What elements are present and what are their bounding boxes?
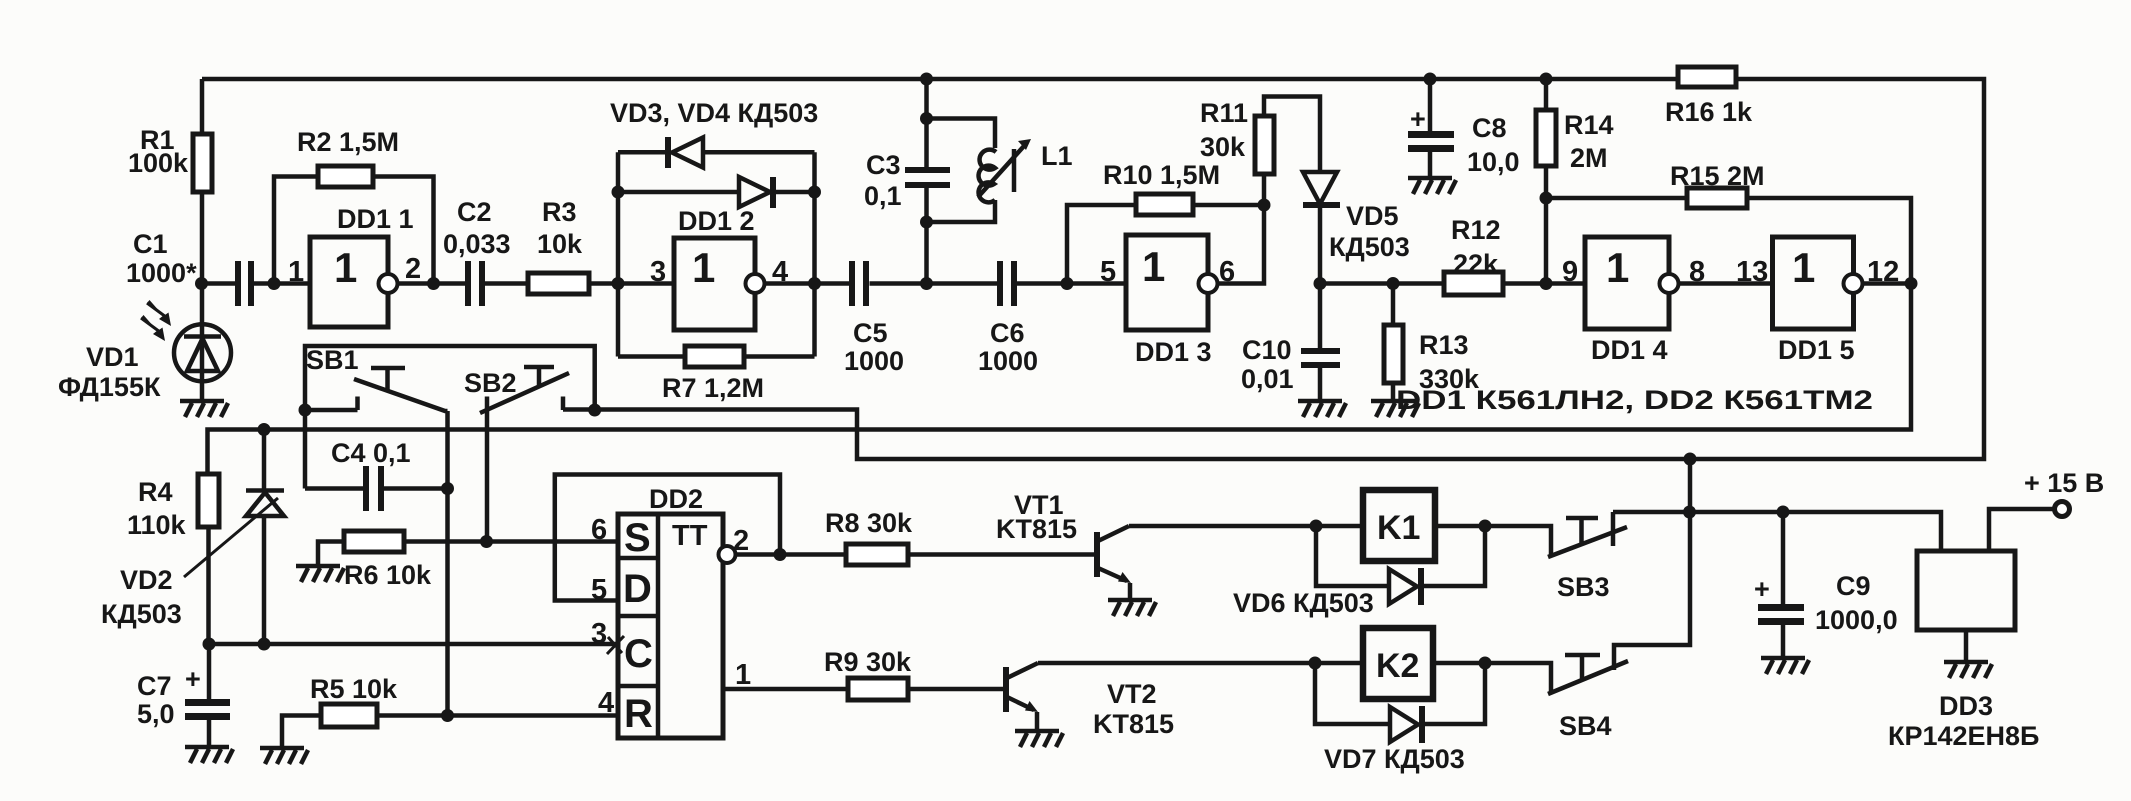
wire SB2 right post to frame	[563, 407, 595, 412]
logic gate DD1.5	[1773, 237, 1863, 329]
svg-text:DD1 2: DD1 2	[678, 206, 755, 236]
wire R1 bottom to C1 node down to VD1 and ground	[200, 192, 205, 401]
wire R13 lower lead to ground	[1391, 383, 1396, 401]
svg-text:1000,0: 1000,0	[1815, 605, 1898, 635]
svg-text:5: 5	[1100, 256, 1116, 288]
ground R13	[1371, 401, 1419, 417]
svg-text:2M: 2M	[1570, 143, 1608, 173]
wire VD2 top lead	[262, 430, 267, 490]
wire R14 bottom through R15 node to pin9 wire	[1544, 165, 1549, 284]
wire DD3 ground lead	[1964, 630, 1969, 662]
wire SB2 left post vertical to R6 row	[485, 410, 490, 542]
capacitor C10	[1301, 348, 1340, 368]
node R13	[1387, 277, 1400, 290]
svg-text:6: 6	[1219, 256, 1235, 288]
svg-text:ФД155К: ФД155К	[58, 372, 161, 402]
svg-text:L1: L1	[1041, 141, 1073, 171]
svg-text:K2: K2	[1376, 647, 1419, 685]
logic gate DD1.1	[310, 237, 398, 327]
wire C5 to C6	[870, 281, 999, 286]
photodiode VD1	[141, 300, 231, 381]
node SB2 frame right	[588, 404, 601, 417]
wire R4 bottom lead	[206, 527, 211, 644]
wire supply branch down to SB3 SB4 feed	[1614, 459, 1690, 670]
wire DD1.4 out to DD1.5 in	[1679, 281, 1773, 286]
resistor R2	[318, 166, 373, 187]
ground C9	[1761, 658, 1809, 674]
wire VD7 bypass loop	[1315, 663, 1485, 724]
resistor R13	[1384, 325, 1403, 383]
ground VT1	[1108, 600, 1156, 616]
wire C3 upper lead from bus	[924, 79, 929, 167]
wire R11 top to VD5 top	[1264, 97, 1320, 173]
capacitor C5	[849, 261, 869, 306]
svg-text:+: +	[185, 664, 201, 694]
wire L1 parallel branch	[927, 119, 996, 223]
wire VD3 row	[618, 150, 815, 155]
logic gate DD1.4	[1585, 237, 1679, 329]
svg-text:DD3: DD3	[1939, 691, 1993, 721]
svg-text:R11: R11	[1200, 98, 1248, 128]
svg-text:+: +	[1754, 574, 1770, 604]
wire K1 right to SB3	[1435, 526, 1551, 557]
svg-text:SB2: SB2	[464, 368, 517, 398]
svg-text:КД503: КД503	[1329, 232, 1410, 262]
svg-text:VD6 КД503: VD6 КД503	[1233, 588, 1374, 618]
svg-text:KT815: KT815	[1093, 709, 1174, 739]
push button SB1	[354, 368, 448, 411]
svg-text:DD1 5: DD1 5	[1778, 335, 1855, 365]
capacitor C4	[363, 466, 384, 511]
voltage regulator DD3	[1917, 551, 2015, 630]
transistor VT1	[1094, 526, 1131, 600]
capacitor C3	[905, 167, 950, 188]
svg-text:1000*: 1000*	[126, 258, 197, 288]
svg-text:1000: 1000	[978, 346, 1038, 376]
node R10 R11 output	[1258, 199, 1271, 212]
node C3 signal row	[920, 277, 933, 290]
svg-text:10,0: 10,0	[1467, 147, 1520, 177]
wire DD1.2 output to C5	[765, 281, 851, 286]
wire SB frame rectangle	[305, 346, 595, 489]
node VD5 C10	[1314, 277, 1327, 290]
svg-text:0,033: 0,033	[443, 229, 511, 259]
node K2 right	[1479, 657, 1492, 670]
svg-text:C7: C7	[137, 671, 172, 701]
svg-text:R5 10k: R5 10k	[310, 674, 398, 704]
svg-text:1: 1	[1792, 244, 1815, 291]
svg-text:8: 8	[1689, 256, 1705, 288]
wire DD1.5 out to pin12 node	[1863, 281, 1912, 286]
wire R13 upper lead	[1391, 284, 1396, 327]
capacitor C2	[465, 261, 485, 306]
wire R15 row and right riser to pin12 node and long feedback line	[208, 198, 1912, 474]
node C4 right	[441, 482, 454, 495]
svg-text:R14: R14	[1564, 110, 1614, 140]
wire VD5 node through R12 to DD1.4 pin9	[1320, 281, 1585, 286]
resistor R4	[198, 474, 219, 527]
svg-text:2: 2	[733, 525, 749, 557]
wire R10 feedback loop	[1067, 205, 1264, 284]
diode VD2 with leader line	[184, 491, 284, 578]
svg-text:C2: C2	[457, 197, 492, 227]
svg-text:DD1 4: DD1 4	[1591, 335, 1668, 365]
resistor R14	[1536, 110, 1556, 166]
svg-text:C10: C10	[1242, 335, 1292, 365]
diode VD7	[1390, 706, 1425, 743]
svg-text:SB1: SB1	[306, 345, 359, 375]
svg-text:1: 1	[334, 244, 357, 291]
resistor R3	[528, 273, 589, 294]
svg-text:VD2: VD2	[120, 565, 173, 595]
capacitor C7 polarized	[185, 699, 230, 720]
svg-text:R9 30k: R9 30k	[824, 647, 912, 677]
svg-text:R13: R13	[1419, 330, 1469, 360]
svg-text:C6: C6	[990, 318, 1025, 348]
wire R2 feedback loop	[274, 177, 434, 284]
logic gate DD1.2	[674, 238, 765, 330]
node VD4 right	[808, 186, 821, 199]
wire C1 right to DD1.1 pin1	[253, 281, 310, 286]
capacitor C8 polarized	[1408, 131, 1454, 152]
node R6 SB2	[480, 535, 493, 548]
capacitor C1	[235, 261, 254, 306]
svg-text:VD5: VD5	[1346, 201, 1399, 231]
wire VD4 row	[618, 190, 815, 195]
node bus R14	[1540, 73, 1553, 86]
svg-text:C9: C9	[1836, 571, 1871, 601]
node supply branch 459	[1684, 453, 1697, 466]
capacitor C6	[997, 261, 1017, 306]
svg-text:1: 1	[288, 256, 304, 288]
wire DD2 output pin2 to R8 node	[735, 552, 780, 557]
ground C8	[1408, 178, 1456, 194]
wire VD6 bypass loop	[1316, 526, 1485, 586]
node K2 left	[1309, 657, 1322, 670]
svg-text:C5: C5	[853, 318, 888, 348]
svg-text:DD1 3: DD1 3	[1135, 337, 1212, 367]
ground DD3	[1944, 662, 1992, 678]
svg-text:R15 2M: R15 2M	[1670, 161, 1765, 191]
wire C8 lower lead to ground	[1428, 151, 1433, 178]
svg-text:6: 6	[591, 514, 607, 546]
wire DD1.1 output to C2	[398, 281, 467, 286]
svg-text:KT815: KT815	[996, 514, 1077, 544]
svg-text:3: 3	[650, 256, 666, 288]
resistor R8	[846, 544, 908, 565]
svg-text:4: 4	[772, 256, 788, 288]
node C3 L1 bottom	[920, 216, 933, 229]
svg-text:КР142ЕН8Б: КР142ЕН8Б	[1888, 721, 2039, 751]
node DD1.1 output R2	[427, 277, 440, 290]
wire C7 bottom lead to ground	[207, 716, 212, 747]
wire R8 left lead	[780, 552, 847, 557]
svg-text:VD7 КД503: VD7 КД503	[1324, 744, 1465, 774]
svg-text:R8 30k: R8 30k	[825, 508, 913, 538]
wire SB1 lever vertical down to pin4 row	[445, 411, 450, 716]
wire DD1.2 frame left vertical	[616, 152, 621, 356]
resistor R12	[1444, 272, 1503, 295]
svg-text:0,1: 0,1	[864, 181, 902, 211]
node pin12 feedback	[1905, 277, 1918, 290]
wire C4 right lead	[381, 486, 448, 491]
svg-text:C1: C1	[133, 229, 168, 259]
node bus C8	[1424, 73, 1437, 86]
wire R9 right to VT2 base	[907, 687, 1004, 692]
wire DD1.3 output riser to R10/R11 node	[1218, 205, 1265, 284]
wire R8 right to VT1 base	[907, 552, 1095, 557]
wire C7 top lead	[207, 644, 212, 700]
wire R5 right to DD2 pin4 R row	[376, 713, 618, 718]
wire R11 bottom lead to R10 node	[1262, 174, 1267, 205]
node bus C3	[920, 73, 933, 86]
svg-text:1: 1	[735, 659, 751, 691]
node C6 R10 pin5	[1061, 277, 1074, 290]
svg-text:12: 12	[1867, 256, 1899, 288]
ground C10	[1298, 401, 1346, 417]
svg-text:100k: 100k	[128, 148, 189, 178]
wire R7 row	[618, 354, 815, 359]
push button SB2	[480, 367, 569, 413]
svg-text:R4: R4	[138, 477, 173, 507]
svg-text:VD3, VD4 КД503: VD3, VD4 КД503	[610, 98, 818, 128]
wire C9 top lead	[1781, 512, 1786, 605]
wire DD2 pin3 C row	[209, 642, 618, 647]
svg-text:C8: C8	[1472, 113, 1507, 143]
node VD2 feedback line	[258, 423, 271, 436]
wire C10 upper lead	[1318, 284, 1323, 349]
diode VD6	[1389, 568, 1424, 605]
wire C2 to R3	[484, 281, 530, 286]
svg-text:R7 1,2M: R7 1,2M	[662, 373, 764, 403]
node R4 C7 pin3 row	[203, 638, 216, 651]
wire R14 top lead from bus	[1544, 79, 1549, 111]
resistor R7	[685, 346, 744, 367]
resistor R11	[1255, 116, 1274, 174]
transistor VT2	[1003, 663, 1038, 731]
node C3 L1 top	[920, 112, 933, 125]
wire relay supply row to DD3	[1613, 512, 1941, 551]
svg-text:VT2: VT2	[1107, 679, 1157, 709]
svg-text:R16 1k: R16 1k	[1665, 97, 1753, 127]
svg-text:R6 10k: R6 10k	[344, 560, 432, 590]
node K1 right	[1479, 520, 1492, 533]
wire R1 top lead	[200, 79, 205, 134]
wire VD2 bottom lead	[262, 515, 267, 644]
svg-text:C: C	[624, 632, 653, 676]
node DD1.2 pin3 frame	[612, 277, 625, 290]
inductor L1 variable	[978, 139, 1031, 202]
svg-text:R12: R12	[1451, 215, 1501, 245]
node DD2 pin2 R8 feedback	[774, 548, 787, 561]
node R14 R15	[1540, 192, 1553, 205]
node DD1.1 input R2	[268, 277, 281, 290]
svg-text:DD1 1: DD1 1	[337, 204, 414, 234]
push button SB3	[1548, 512, 1627, 557]
wire R5 left lead and ground stem	[282, 716, 322, 749]
svg-text:5,0: 5,0	[137, 699, 175, 729]
svg-text:C3: C3	[866, 150, 901, 180]
svg-text:+: +	[1410, 104, 1426, 134]
wire DD1.2 frame right vertical	[812, 152, 817, 356]
svg-text:SB3: SB3	[1557, 572, 1610, 602]
wire DD3 output to +15V terminal	[1989, 509, 2055, 551]
wire VD5 cathode to node	[1318, 206, 1323, 284]
ground VD1	[180, 401, 228, 417]
svg-text:1: 1	[1606, 244, 1629, 291]
svg-text:1: 1	[1142, 243, 1165, 290]
wire C8 upper lead from bus	[1428, 79, 1433, 132]
relay K1	[1363, 490, 1435, 561]
wire C9 bottom lead to ground	[1781, 623, 1786, 658]
node SB1 frame left	[299, 404, 312, 417]
wire R6 left lead and ground stem	[318, 542, 345, 567]
resistor R1	[193, 134, 212, 192]
resistor R16	[1678, 67, 1736, 87]
svg-text:K1: K1	[1377, 509, 1420, 547]
svg-text:R: R	[624, 692, 653, 736]
terminal +15V	[2055, 502, 2070, 517]
node supply branch 512	[1683, 506, 1696, 519]
node DD1.2 pin4 frame	[808, 277, 821, 290]
resistor R9	[848, 678, 908, 700]
svg-text:DD2: DD2	[649, 484, 703, 514]
capacitor C9 polarized	[1758, 604, 1804, 625]
flip-flop DD2	[607, 514, 736, 738]
svg-text:1: 1	[692, 244, 715, 291]
node R1 C1 VD1	[195, 277, 208, 290]
svg-text:30k: 30k	[1200, 132, 1246, 162]
wire C1 node to C1 left plate	[202, 281, 237, 286]
svg-text:110k: 110k	[127, 510, 187, 540]
svg-text:13: 13	[1736, 256, 1768, 288]
resistor R5	[321, 704, 377, 727]
svg-text:VD1: VD1	[86, 342, 139, 372]
wire DD2 pin1 to R9	[723, 687, 849, 692]
wire VT2 collector to K2	[1038, 661, 1363, 666]
node R12 R14 pin9	[1540, 277, 1553, 290]
logic gate DD1.3	[1126, 235, 1218, 330]
svg-text:4: 4	[598, 687, 614, 719]
svg-text:КД503: КД503	[101, 599, 182, 629]
svg-text:2: 2	[405, 253, 421, 285]
svg-text:TT: TT	[672, 520, 708, 552]
node K1 left	[1310, 520, 1323, 533]
svg-text:DD1 К561ЛН2, DD2 К561ТМ2: DD1 К561ЛН2, DD2 К561ТМ2	[1396, 385, 1873, 415]
wire R6 right to DD2 pin6 S row	[403, 539, 618, 544]
svg-text:1000: 1000	[844, 346, 904, 376]
svg-text:R3: R3	[542, 197, 577, 227]
wire C6 to DD1.3 pin5	[1017, 281, 1126, 286]
wire SB1 left post feed	[305, 408, 358, 413]
wire C4 left lead	[305, 486, 366, 491]
ground C7	[185, 747, 233, 763]
svg-text:C4 0,1: C4 0,1	[331, 438, 411, 468]
resistor R6	[344, 531, 404, 552]
wire R3 to DD1.2 pin3	[588, 281, 674, 286]
push button SB4	[1548, 655, 1628, 694]
node C9 supply	[1777, 506, 1790, 519]
wire DD2 feedback pin2 to pin5 D	[555, 475, 780, 601]
node VD4 left	[612, 186, 625, 199]
diode VD3	[665, 137, 703, 168]
svg-text:S: S	[624, 516, 651, 560]
ground R6	[296, 566, 344, 582]
svg-text:R10 1,5M: R10 1,5M	[1103, 160, 1220, 190]
diode VD5	[1303, 172, 1340, 208]
svg-text:22k: 22k	[1453, 249, 1499, 279]
node SB1 branch pin4 row	[441, 709, 454, 722]
svg-text:9: 9	[1562, 256, 1578, 288]
diode VD4	[739, 177, 776, 208]
svg-text:0,01: 0,01	[1241, 364, 1294, 394]
resistor R10	[1136, 194, 1193, 215]
svg-text:5: 5	[591, 574, 607, 606]
wire VT1 collector to K1	[1129, 524, 1363, 529]
svg-text:R2 1,5M: R2 1,5M	[297, 127, 399, 157]
relay K2	[1363, 628, 1433, 699]
node VD2 pin3 row	[258, 638, 271, 651]
svg-text:10k: 10k	[537, 229, 583, 259]
svg-text:D: D	[623, 567, 652, 611]
wire C3 lower lead to signal row	[924, 188, 929, 284]
ground VT2	[1015, 731, 1063, 747]
svg-text:+ 15 В: + 15 В	[2024, 468, 2104, 498]
resistor R15	[1687, 188, 1747, 208]
ground R5	[260, 748, 308, 764]
svg-text:SB4: SB4	[1559, 711, 1612, 741]
wire C10 lower lead to ground	[1318, 368, 1323, 401]
wire top supply bus from R1 top to right bus down to SB frame	[202, 79, 1984, 459]
svg-text:3: 3	[591, 618, 607, 650]
wire K2 right to SB4	[1433, 663, 1551, 692]
